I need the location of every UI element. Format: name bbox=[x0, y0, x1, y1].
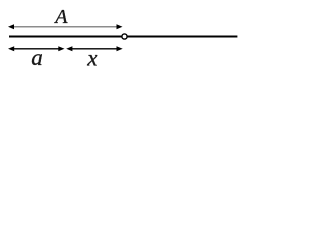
svg-text:a: a bbox=[31, 45, 43, 70]
svg-text:A: A bbox=[53, 6, 68, 28]
svg-text:x: x bbox=[86, 46, 98, 71]
